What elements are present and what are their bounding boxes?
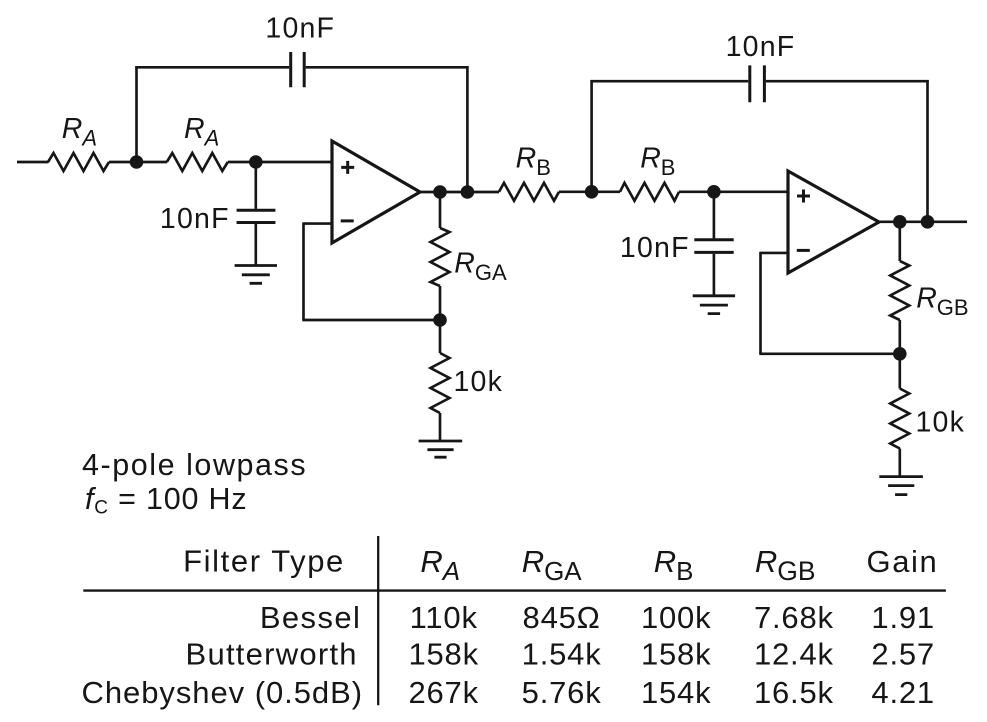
svg-text:12.4k: 12.4k (754, 637, 834, 672)
ground G2 (419, 441, 463, 457)
table vertical rule (377, 536, 379, 705)
svg-text:4.21: 4.21 (871, 675, 935, 710)
node F1 (893, 215, 907, 229)
resistor RB2 (620, 183, 679, 201)
svg-text:2.57: 2.57 (871, 637, 935, 672)
wire C2 to ground (254, 224, 257, 266)
node B (249, 155, 263, 169)
wire node A up to feedback (135, 66, 138, 163)
wire node E down to R10k1 (439, 321, 442, 353)
wire feedback down to output node (466, 66, 469, 192)
svg-text:10nF: 10nF (620, 232, 690, 264)
svg-text:RB: RB (654, 544, 694, 586)
svg-text:7.68k: 7.68k (754, 600, 834, 635)
wire RA2 to op-amp U1 (228, 161, 332, 164)
node G (893, 347, 907, 361)
svg-text:5.76k: 5.76k (522, 675, 602, 710)
op-amp U2 minus (797, 249, 810, 252)
op-amp U1 triangle (332, 141, 420, 243)
node C (585, 185, 599, 199)
svg-text:RGB: RGB (755, 544, 816, 586)
resistor RB1 (499, 183, 559, 201)
svg-text:100k: 100k (641, 600, 711, 635)
resistor RGA (431, 228, 450, 286)
svg-text:RGA: RGA (522, 544, 583, 586)
wire U1 feedback loop horizontal to node E (302, 319, 440, 322)
svg-text:158k: 158k (408, 637, 478, 672)
capacitor C1 plates (291, 52, 305, 87)
svg-text:267k: 267k (408, 675, 478, 710)
op-amp U2 plus (797, 190, 810, 203)
ground G3 (693, 296, 735, 314)
wire RGB to node G (898, 320, 901, 354)
wire U2 feedback loop horizontal to node G (759, 352, 900, 355)
svg-text:1.54k: 1.54k (522, 637, 602, 672)
svg-text:16.5k: 16.5k (754, 675, 834, 710)
svg-text:RGA: RGA (454, 247, 507, 285)
op-amp U1 minus (341, 219, 354, 222)
svg-text:10nF: 10nF (726, 31, 796, 63)
svg-text:Chebyshev (0.5dB): Chebyshev (0.5dB) (81, 675, 363, 710)
svg-text:RA: RA (420, 544, 460, 586)
wire U1 output (419, 191, 499, 194)
ground G4 (879, 477, 923, 495)
wire node C up to feedback 2 (590, 80, 593, 193)
wire node G down to R10k2 (898, 355, 901, 389)
wire U2 feedback loop vertical (759, 252, 762, 354)
svg-text:1.91: 1.91 (871, 600, 935, 635)
svg-text:154k: 154k (641, 675, 711, 710)
node E (433, 313, 447, 327)
wire R10k1 to ground (439, 413, 442, 441)
svg-text:10nF: 10nF (160, 203, 230, 235)
op-amp U2 triangle (788, 171, 879, 273)
node C1 (433, 185, 447, 199)
table header rule (83, 589, 946, 591)
wire C4 to ground (713, 254, 716, 296)
wire node B down to capacitor C2 (254, 163, 257, 209)
wire input lead (17, 161, 49, 164)
node F2 (921, 215, 935, 229)
wire node C1 down to RGA (439, 193, 442, 228)
svg-text:10nF: 10nF (265, 13, 335, 45)
wire RA1 to node A to RA2 (109, 161, 167, 164)
svg-text:845Ω: 845Ω (523, 600, 601, 635)
resistor R10k1 (431, 353, 450, 413)
wire feedback top right segment (306, 66, 469, 69)
wire U2 output (878, 220, 967, 223)
resistor RA1 (48, 153, 109, 171)
wire R10k2 to ground (898, 449, 901, 477)
wire feedback 2 top left segment (590, 80, 748, 83)
svg-text:RA: RA (62, 113, 97, 151)
svg-text:10k: 10k (916, 407, 966, 439)
node D (707, 185, 721, 199)
svg-text:RGB: RGB (916, 282, 968, 320)
wire feedback top left segment (135, 66, 289, 69)
wire node D down to capacitor C4 (713, 193, 716, 239)
node C2 (461, 185, 475, 199)
resistor R10k2 (890, 389, 909, 449)
svg-text:Butterworth: Butterworth (186, 637, 358, 672)
svg-text:fC = 100 Hz: fC = 100 Hz (85, 482, 247, 518)
svg-text:RB: RB (640, 142, 675, 180)
svg-text:Gain: Gain (867, 544, 939, 579)
wire U1 feedback loop vertical (302, 222, 305, 320)
svg-text:RB: RB (516, 142, 551, 180)
svg-text:158k: 158k (641, 637, 711, 672)
svg-text:RA: RA (184, 113, 219, 151)
wire RB1 to node C to RB2 (559, 190, 620, 193)
wire node F1 down to RGB (898, 223, 901, 261)
svg-text:4-pole lowpass: 4-pole lowpass (82, 448, 307, 482)
node A (130, 155, 144, 169)
resistor RA2 (167, 153, 228, 171)
svg-text:110k: 110k (410, 600, 478, 635)
ground G1 (235, 266, 277, 284)
svg-text:Bessel: Bessel (260, 600, 361, 635)
wire U1 inverting input stub (304, 222, 333, 225)
wire RB2 to op-amp U2 (679, 190, 788, 193)
wire feedback 2 top right segment (766, 80, 929, 83)
op-amp U1 plus (341, 161, 354, 174)
wire feedback 2 down to output node (926, 80, 929, 222)
wire U2 inverting input stub (761, 252, 789, 255)
svg-text:Filter Type: Filter Type (183, 543, 345, 578)
capacitor C4 plates (694, 240, 733, 253)
capacitor C3 plates (750, 65, 765, 102)
svg-text:10k: 10k (454, 366, 504, 398)
resistor RGB (890, 261, 909, 320)
wire RGA to node E (439, 286, 442, 320)
capacitor C2 plates (237, 210, 276, 222)
